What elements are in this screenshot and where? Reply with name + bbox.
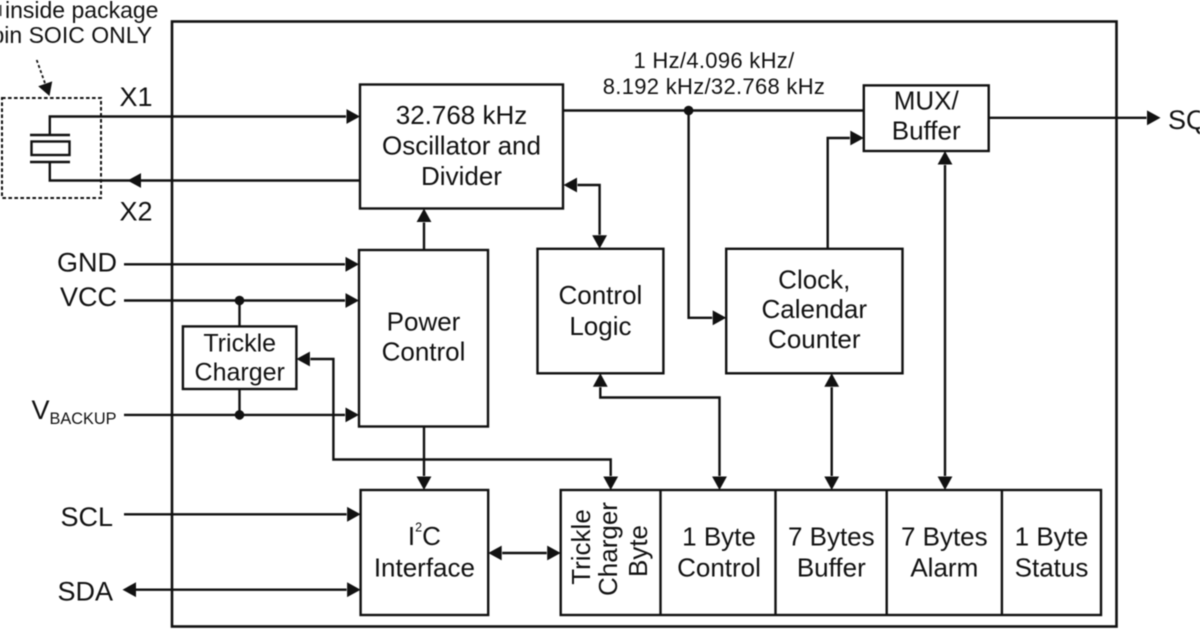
svg-text:Divider: Divider [421,161,502,191]
wire GND [124,263,345,265]
crystal package dashed box [2,98,101,198]
wire MUX to 7 Bytes Alarm [944,165,946,476]
wire oscillator to MUX [563,109,864,111]
wire VCC [124,299,345,301]
arrowhead Power Control into oscillator bottom [417,209,432,223]
wire Power Control to I2C Interface [423,427,425,477]
svg-text:7 Bytes: 7 Bytes [901,522,988,552]
wire Trickle Charger stub to VBACKUP [238,389,240,415]
arrowhead row arrow into I2C right [488,546,502,561]
register row divider 2 [774,490,776,615]
svg-text:Alarm: Alarm [910,552,978,582]
wire VCC stub to Trickle Charger [238,301,240,327]
svg-text:1 Hz/4.096 kHz/: 1 Hz/4.096 kHz/ [633,48,795,73]
svg-text:Status: Status [1015,552,1089,582]
svg-text:Control: Control [558,280,642,310]
svg-text:7 Bytes: 7 Bytes [788,522,875,552]
wire Power Control to Trickle Charger and Trickle Charger Byte [310,359,610,476]
wire MUX to SQW output [989,117,1147,119]
svg-text:Oscillator and: Oscillator and [382,131,541,161]
callout arrowhead [38,81,52,96]
svg-text:I2C: I2C [408,521,441,552]
arrowhead into I2C top [417,477,432,491]
wire Control Logic to 1 Byte Control [600,387,719,476]
Power Control block [359,250,488,427]
arrowhead into MUX bottom [938,151,953,165]
arrowhead into 7 Bytes Buffer top [824,477,839,491]
junction node oscillator output [684,106,694,116]
chip outline border [172,22,1117,627]
svg-text:Trickle: Trickle [203,330,276,358]
svg-text:X1: X1 [119,82,152,112]
arrowhead row arrow into Trickle Charger Byte left [547,546,561,561]
Control Logic block [538,249,664,373]
wire oscillator to Control Logic [578,185,600,235]
arrowhead node into Clock Calendar Counter [713,310,727,325]
svg-text:1 Byte: 1 Byte [1015,522,1089,552]
junction node VBACKUP [235,410,245,420]
wire Clock Calendar Counter to 7 Bytes Buffer [831,387,833,476]
svg-text:MUX/: MUX/ [894,85,960,115]
wire crystal to X1 [50,117,346,136]
register row block [561,490,1101,615]
svg-text:Power: Power [387,307,461,337]
svg-text:Byte: Byte [623,525,653,577]
MUX/Buffer block [864,85,989,151]
svg-text:Counter: Counter [768,324,861,354]
wire I2C Interface to Trickle Charger Byte [502,552,547,554]
svg-text:inside package: inside package [5,0,158,23]
register row divider 4 [1001,490,1003,615]
svg-text:Logic: Logic [569,311,631,341]
wire node to Clock Calendar Counter [689,111,713,318]
arrowhead Clock path into MUX left [850,131,864,146]
svg-text:Calendar: Calendar [762,294,868,324]
svg-text:SCL: SCL [60,502,113,532]
svg-text:Buffer: Buffer [892,116,961,146]
arrowhead into 1 Byte Control top [712,477,727,491]
register row divider 1 [659,490,661,615]
arrowhead into Trickle Charger Byte top [603,477,618,491]
svg-text:8.192 kHz/32.768 kHz: 8.192 kHz/32.768 kHz [603,74,825,99]
arrowhead X1 into oscillator [347,109,361,124]
register row divider 3 [886,490,888,615]
junction node VCC [235,296,245,306]
arrowhead SDA into I2C [347,582,361,597]
arrowhead SDA outward [123,582,137,597]
callout arrow line [37,60,46,84]
cut glyph sliver [0,5,1,16]
svg-text:SQW: SQW [1168,105,1200,135]
crystal Y1 bottom plate [30,161,70,163]
svg-text:Interface: Interface [374,553,475,583]
svg-text:SDA: SDA [57,576,113,606]
arrowhead GND into Power Control [346,257,360,272]
svg-text:Charger: Charger [593,502,623,596]
svg-text:Control: Control [677,553,761,583]
wire Clock Calendar Counter to MUX [828,138,850,249]
I2C Interface block [361,490,489,615]
arrowhead SCL into I2C [347,507,361,522]
oscillator block U-OSC [360,85,563,209]
arrowhead X2 toward crystal [128,173,142,188]
wire Power Control to oscillator [423,223,425,251]
svg-text:Charger: Charger [195,359,285,387]
arrowhead into oscillator right edge [564,178,578,193]
svg-text:GND: GND [57,247,117,277]
wire SCL [124,513,347,515]
Clock Calendar Counter block [726,249,902,373]
svg-text:Control: Control [382,337,466,367]
arrowhead VBACKUP into Power Control [346,408,360,423]
crystal Y1 body [32,142,70,156]
svg-text:32.768 kHz: 32.768 kHz [396,100,528,130]
arrowhead into Control Logic bottom [593,373,608,387]
wire crystal to X2 [50,162,360,181]
wire SDA [136,589,347,591]
svg-text:1 Byte: 1 Byte [682,522,756,552]
svg-text:X2: X2 [119,197,152,227]
svg-text:Trickle: Trickle [566,509,596,585]
arrowhead into Trickle Charger right edge [296,352,310,367]
arrowhead into 7 Bytes Alarm top [938,477,953,491]
Trickle Charger block [183,326,297,389]
arrowhead into Clock Calendar Counter bottom [824,373,839,387]
svg-text:Buffer: Buffer [797,552,866,582]
arrowhead VCC into Power Control [346,293,360,308]
svg-text:Clock,: Clock, [778,265,850,295]
wire VBACKUP [124,414,345,416]
crystal Y1 top plate [30,134,70,136]
svg-text:pin SOIC ONLY: pin SOIC ONLY [0,22,152,48]
svg-text:VCC: VCC [60,282,117,312]
arrowhead into Control Logic top [592,235,607,249]
arrowhead SQW output [1147,110,1161,125]
